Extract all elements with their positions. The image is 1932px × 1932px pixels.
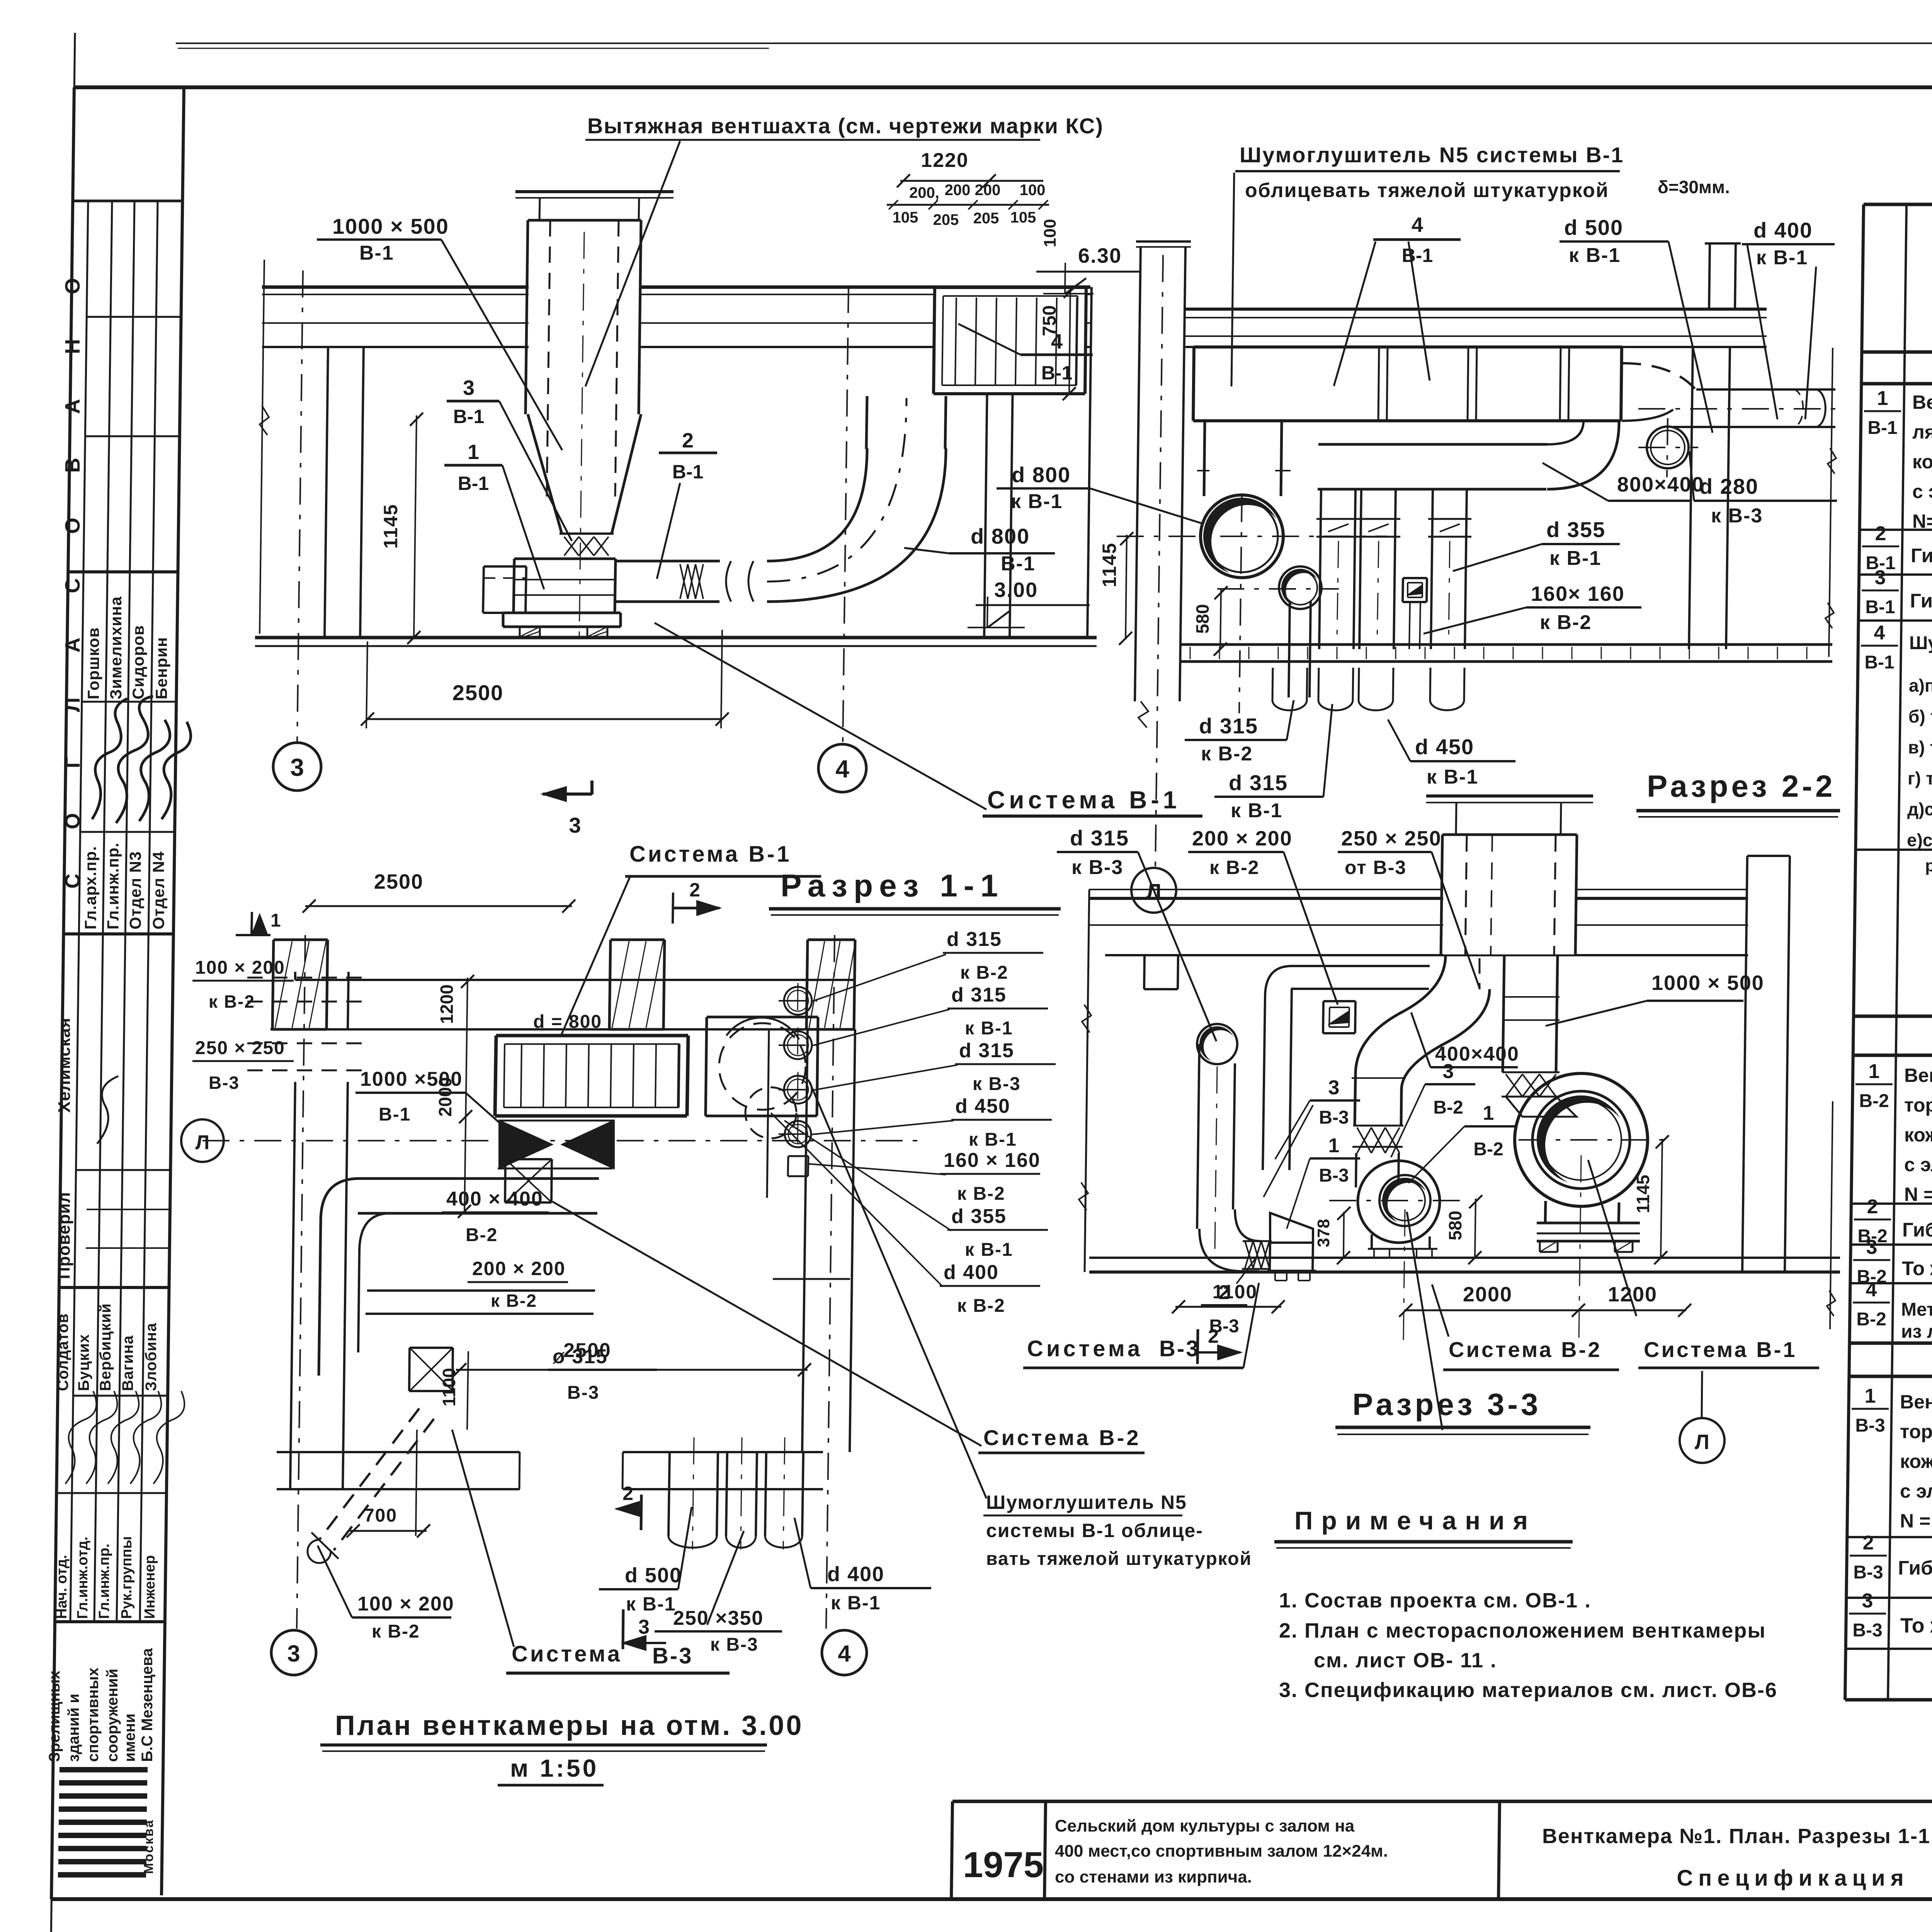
svg-text:к В-1: к В-1 [1549,547,1601,570]
r22 ceiling [1185,308,1767,311]
r22 left shaft wall [1135,247,1141,701]
svg-text:к В-2: к В-2 [1201,743,1253,765]
svg-text:План венткамеры на отм. 3.: План венткамеры на отм. 3.00 [335,1710,803,1741]
r11 right wall column [984,347,988,638]
svg-text:4: 4 [838,1641,851,1667]
svg-text:к В-2: к В-2 [957,1184,1005,1204]
svg-text:3: 3 [1443,1060,1454,1083]
svg-text:250 ×350: 250 ×350 [673,1607,764,1629]
svg-text:Гибкая вставка: Гибкая вставка [1910,590,1932,612]
svg-text:3: 3 [287,1641,300,1667]
svg-text:d 355: d 355 [1546,517,1605,542]
svg-text:205: 205 [973,210,999,227]
plan dim 1200 2000 left [464,978,468,1213]
r33 dim 1145 [1661,1139,1662,1258]
plan dim 1100 [467,1351,468,1430]
svg-text:Горшков: Горшков [84,627,102,699]
proveril sub rows [87,1209,170,1210]
svg-text:к В-2: к В-2 [372,1621,420,1642]
plan marker 3 bottom + sistema V-3 [623,1609,623,1649]
svg-text:Система: Система [512,1641,622,1667]
svg-text:Система В-2: Система В-2 [1449,1337,1602,1362]
r11 axis 4 [843,286,849,744]
svg-text:2000: 2000 [435,1077,455,1117]
svg-text:2: 2 [689,879,700,901]
svg-text:Гл.инж.отд.: Гл.инж.отд. [75,1537,91,1619]
svg-text:к В-1: к В-1 [626,1593,676,1615]
svg-text:В-2: В-2 [1859,1091,1889,1111]
plan diagonal duct bottom left [319,1408,419,1540]
r33 floor [1089,1257,1840,1259]
r22 small circle d315 [1281,569,1319,607]
svg-text:4: 4 [1874,622,1885,644]
svg-text:580: 580 [1445,1211,1465,1240]
plan axis 4 [826,935,835,1629]
svg-text:В-3: В-3 [1852,1620,1882,1641]
plan court divider [767,1029,769,1198]
plan top wall [295,979,855,981]
svg-text:Шумоглушитель N5 системы В-1: Шумоглушитель N5 системы В-1 [1240,143,1624,167]
svg-text:а)пластина шумоглушащая: а)пластина шумоглушащая [1909,675,1932,696]
svg-text:Проверил: Проверил [55,1192,74,1279]
r33 fan V-1 base [1537,1222,1640,1225]
r33 fan V-2 scroll [1358,1161,1440,1243]
stamp signatures group 1 [92,699,127,819]
svg-text:205: 205 [933,211,959,228]
svg-text:3: 3 [463,376,474,400]
svg-text:2: 2 [622,1483,633,1504]
svg-text:к В-1: к В-1 [1569,244,1621,267]
svg-text:к В-2: к В-2 [491,1291,537,1311]
svg-text:1975: 1975 [963,1844,1044,1885]
svg-text:к В-1: к В-1 [1427,766,1478,788]
svg-text:Сидоров: Сидоров [129,625,147,699]
svg-text:6.30: 6.30 [1078,244,1122,267]
plan duct 400x400 [359,1177,599,1180]
svg-text:тором исп. 1, положение: тором исп. 1, положение [1900,1421,1932,1442]
plan axis 3 [297,935,305,1629]
svg-text:200 × 200: 200 × 200 [1192,827,1293,850]
svg-text:1000 × 500: 1000 × 500 [1651,971,1764,995]
r11 left wall column [325,347,328,638]
svg-text:В-1: В-1 [1867,418,1897,438]
svg-text:Система В-2: Система В-2 [983,1425,1141,1450]
svg-text:кожуха„ПО",правого вращения: кожуха„ПО",правого вращения [1900,1451,1932,1472]
plan bottom duct stubs [668,1452,670,1536]
svg-text:1: 1 [1865,1385,1876,1407]
svg-text:из лист. стали δ = 2 мм.: из лист. стали δ = 2 мм. [1901,1321,1932,1342]
plan bottom wall [277,1451,520,1453]
r22 right wall above ceiling [1709,243,1710,309]
svg-text:В-1: В-1 [1402,245,1433,266]
svg-text:d 400: d 400 [1753,218,1813,242]
svg-text:4: 4 [1866,1279,1877,1301]
plan duct 200x200 [367,1289,595,1292]
svg-text:В-2: В-2 [1856,1309,1886,1330]
r11 right wall edge [1087,287,1092,638]
svg-text:250 × 250: 250 × 250 [1341,827,1442,850]
svg-text:3. Спецификацию материалов с: 3. Спецификацию материалов см. лист. ОВ-… [1279,1679,1777,1702]
stamp column internal verticals [70,201,88,1622]
svg-text:1: 1 [1877,387,1888,410]
r11 flex insert top [560,532,614,535]
r11 duct to elbow [616,560,720,563]
plan silencer box [496,1034,688,1037]
svg-text:к В-2: к В-2 [957,1296,1005,1316]
svg-text:Вагина: Вагина [119,1335,136,1391]
r11 left axis line [260,260,264,634]
svg-text:см. лист ОВ- 11 .: см. лист ОВ- 11 . [1314,1649,1497,1672]
stamp column right edge [162,87,184,1895]
svg-text:d 315: d 315 [1070,826,1129,850]
r22 right dim line [1829,348,1833,657]
svg-text:4: 4 [835,755,849,783]
svg-text:вать тяжелой штукатуркой: вать тяжелой штукатуркой [986,1549,1252,1569]
svg-text:Гибкая вставка: Гибкая вставка [1898,1557,1932,1579]
r22 under-floor duct stubs [1272,668,1273,700]
title block frame [952,1800,1932,1803]
svg-text:1. Состав проекта см. ОВ-1: 1. Состав проекта см. ОВ-1 . [1279,1589,1591,1612]
svg-text:1: 1 [468,440,479,464]
r11 vent shaft [529,221,640,413]
r11 duct d800 vertical [866,396,867,449]
svg-text:200 × 200: 200 × 200 [472,1258,566,1279]
svg-text:Вентагрегат с ц/б. венти-: Вентагрегат с ц/б. венти- [1912,391,1932,413]
r33 flex V-3 [1245,1241,1253,1268]
svg-text:к В-1: к В-1 [1231,799,1282,822]
svg-text:1: 1 [1483,1102,1494,1124]
r11 floor [255,636,1097,639]
svg-text:200: 200 [975,182,1001,199]
r22 floor [1180,643,1832,646]
svg-text:Гибкая вставка: Гибкая вставка [1902,1219,1932,1241]
svg-text:Л: Л [196,1131,210,1154]
svg-text:к В-3: к В-3 [1071,856,1123,879]
svg-text:к В-1: к В-1 [965,1240,1013,1260]
svg-text:750: 750 [1039,305,1060,336]
svg-text:N = 0.27 квт. n = 1400 об/м: N = 0.27 квт. n = 1400 об/мин. [1900,1510,1932,1532]
svg-text:3.00: 3.00 [994,578,1038,602]
stamp column row lines [68,570,178,573]
svg-text:к В-3: к В-3 [1711,505,1763,527]
r33 section marker 2 bottom [1197,1329,1198,1364]
svg-text:100 × 200: 100 × 200 [195,957,285,978]
r22 800x400 duct [1318,443,1547,446]
svg-text:100: 100 [1020,182,1046,199]
svg-text:Система: Система [1027,1336,1143,1361]
r22 duct drop to d800 [1204,421,1205,496]
svg-text:Металлическая коробка: Металлическая коробка [1901,1299,1932,1320]
svg-text:к В-1: к В-1 [969,1129,1017,1150]
r22 elbow to right ducts [1622,363,1696,390]
svg-text:2. План с месторасположением: 2. План с месторасположением венткамеры [1279,1619,1766,1642]
svg-text:То ж е: То ж е [1900,1614,1932,1637]
svg-text:тором исп.1 положение: тором исп.1 положение [1904,1094,1932,1116]
svg-text:3: 3 [569,813,581,837]
svg-text:Отдел N4: Отдел N4 [150,851,168,930]
svg-text:1145: 1145 [380,504,401,549]
r33 right wall [1742,856,1747,1272]
svg-text:Вентагрегат с ц/б. вентиля-: Вентагрегат с ц/б. вентиля- [1904,1065,1932,1086]
svg-text:В-3: В-3 [1855,1415,1885,1436]
plan fan V-3 box [410,1347,453,1349]
svg-text:системы В-1 облице-: системы В-1 облице- [986,1520,1203,1541]
r33 S duct to V-2 [1355,955,1446,1074]
svg-text:2: 2 [1863,1532,1874,1554]
r11 dim 1145 left [414,415,417,638]
svg-text:Система В-1: Система В-1 [629,842,792,867]
svg-text:1100: 1100 [439,1368,459,1406]
svg-text:б) то же: б) то же [1908,706,1932,726]
r11 fan unit V-1 [514,558,616,560]
r33 standpipe d315 [1199,1026,1235,1062]
svg-text:облицевать тяжелой штукатуркой: облицевать тяжелой штукатуркой [1245,179,1609,202]
svg-text:1000 × 500: 1000 × 500 [332,214,449,238]
svg-text:к В-2: к В-2 [1540,611,1592,634]
r33 flex V-1 [1506,1074,1522,1097]
svg-text:d 315: d 315 [951,984,1007,1006]
svg-text:Шумоглушитель пластинчатый: Шумоглушитель пластинчатый [1909,633,1932,653]
svg-text:100 × 200: 100 × 200 [357,1593,454,1615]
svg-text:к В-3: к В-3 [973,1074,1021,1094]
r22 silencer duct [1194,345,1622,349]
svg-text:к В-2: к В-2 [209,992,255,1012]
plan left wall [294,972,296,980]
svg-text:105: 105 [893,209,918,226]
svg-text:d 355: d 355 [951,1205,1007,1228]
plan fan V-2 box [505,1158,552,1160]
spec table outer and header [1864,203,1932,206]
r33 right dim line [1830,1101,1833,1329]
svg-text:d 450: d 450 [955,1095,1010,1117]
svg-text:Разрез 1-1: Разрез 1-1 [781,868,1004,903]
r22 right wall [1689,347,1693,649]
svg-text:d 315: d 315 [1199,714,1258,738]
svg-text:Гл.инж.пр.: Гл.инж.пр. [96,1544,112,1619]
svg-text:3: 3 [638,1616,650,1638]
svg-text:Гибкая вставка: Гибкая вставка [1911,544,1932,566]
svg-text:δ=30мм.: δ=30мм. [1658,177,1730,197]
svg-text:Венткамера №1. План. Разрезы 1: Венткамера №1. План. Разрезы 1-1 ; 2-2 ;… [1542,1825,1932,1848]
svg-text:580: 580 [1192,604,1213,634]
svg-text:зданий и: зданий и [65,1694,82,1762]
svg-text:В-2: В-2 [466,1225,498,1245]
svg-text:Система В-1: Система В-1 [1644,1337,1797,1362]
svg-text:d 500: d 500 [1564,215,1623,240]
svg-text:200: 200 [945,182,971,199]
stamp column top box bottom [73,200,182,202]
plan left duct stubs [247,977,363,979]
svg-text:с электродвигателем: с электродвигателем [1912,481,1932,502]
svg-text:к В-2: к В-2 [960,963,1009,983]
r22 dim 580 [1220,589,1221,649]
svg-text:Система В-1: Система В-1 [987,786,1180,814]
svg-text:d 450: d 450 [1415,735,1474,759]
svg-text:кожуха „ПО" правого вращен.: кожуха „ПО" правого вращен. [1912,451,1932,473]
svg-text:1220: 1220 [921,149,969,172]
svg-text:В-1: В-1 [453,406,485,427]
svg-text:сооружений: сооружений [104,1669,121,1762]
r33 flex V-2 [1357,1128,1371,1153]
r11 silencer box [935,288,1085,393]
svg-text:Примечания: Примечания [1294,1506,1536,1535]
paper top edge scan line [176,43,1932,44]
r22 axis L circle [1131,868,1176,913]
r11 dim 2500 [367,718,723,720]
svg-text:кожуха „ПО" правого вращен.: кожуха „ПО" правого вращен. [1904,1124,1932,1146]
svg-text:1: 1 [1328,1134,1340,1157]
r11 elbow d800 [767,448,867,561]
svg-text:Злобина: Злобина [143,1323,160,1391]
svg-text:3: 3 [1328,1077,1340,1099]
svg-text:к В-1: к В-1 [965,1018,1013,1039]
r33 circle L [1680,1418,1725,1463]
r33 left column [1144,955,1145,989]
svg-text:В-2: В-2 [1473,1139,1503,1160]
plan risers leader lines [811,954,946,1002]
r33 dim 1100 [1175,1306,1281,1308]
svg-text:В-3: В-3 [567,1383,599,1403]
svg-text:Л: Л [1695,1430,1709,1454]
r33 left wall line [1085,889,1089,1272]
svg-text:е)сталь прокатная угловая: е)сталь прокатная угловая [1907,830,1932,850]
svg-text:В-3: В-3 [1159,1336,1200,1361]
r11 shaft axis [579,232,584,639]
svg-text:Буцких: Буцких [75,1334,92,1391]
stamp column left edge [51,87,74,1899]
r33 fan V-3 [1270,1242,1313,1244]
r11 axis 3 [297,270,303,743]
plan leader to shumogl [810,1082,986,1498]
svg-text:d 500: d 500 [625,1564,682,1587]
svg-text:Разрез 2-2: Разрез 2-2 [1647,769,1836,803]
svg-text:к В-1: к В-1 [1756,247,1808,269]
r22 160x160 duct [1403,577,1427,579]
svg-text:d 315: d 315 [959,1039,1014,1062]
svg-text:Инженер: Инженер [142,1555,158,1619]
plan marker 2 [673,907,719,910]
svg-text:Вербицкий: Вербицкий [97,1303,114,1391]
r11 funnel [528,414,562,534]
r33 dim 580 [1475,1199,1476,1258]
svg-text:250 × 250: 250 × 250 [195,1038,285,1058]
svg-text:с электродвигателем: с электродвигателем [1900,1480,1932,1502]
svg-text:В-1: В-1 [1864,652,1894,673]
svg-text:2: 2 [1867,1196,1878,1218]
plan riser circles [784,987,812,1015]
svg-text:ø 315: ø 315 [553,1345,608,1368]
svg-text:Гл.арх.пр.: Гл.арх.пр. [82,846,100,929]
svg-text:В-3: В-3 [1853,1562,1883,1583]
svg-text:Вентагрегат с ц /б вентиля -: Вентагрегат с ц /б вентиля - [1900,1391,1932,1413]
inner frame top [74,85,1932,89]
svg-text:В-3: В-3 [1319,1107,1349,1128]
svg-text:200,: 200, [909,184,939,201]
svg-text:2000: 2000 [1463,1283,1512,1306]
svg-text:Москва: Москва [141,1819,156,1874]
svg-text:1145: 1145 [1633,1175,1653,1213]
svg-text:1145: 1145 [1099,543,1120,587]
svg-text:к В-1: к В-1 [1011,490,1063,513]
svg-text:d 315: d 315 [1229,770,1288,795]
r33 ceiling [1089,889,1748,890]
svg-text:То ж е: То ж е [1902,1257,1932,1279]
svg-text:Вытяжная вентшахта (см. чертеж: Вытяжная вентшахта (см. чертежи марки КС… [587,114,1104,138]
svg-text:Солдатов: Солдатов [54,1313,71,1391]
svg-text:N = 0.6 квт. n = 930 об./мин: N = 0.6 квт. n = 930 об./мин [1904,1184,1932,1205]
r11 ceiling [262,286,1090,289]
svg-text:105: 105 [1010,209,1036,226]
svg-text:СОГЛАСОВАНО: СОГЛАСОВАНО [61,233,84,888]
svg-text:160× 160: 160× 160 [1531,582,1625,605]
svg-text:d 400: d 400 [827,1563,884,1586]
plan top columns [274,939,328,941]
svg-text:с электродвигателем: с электродвигателем [1904,1154,1932,1175]
r33 dim 378 [1344,1212,1344,1258]
svg-text:100: 100 [1041,219,1060,247]
spec table row lines [1861,382,1932,386]
svg-text:d = 800: d = 800 [533,1012,602,1032]
svg-text:В-1: В-1 [1041,362,1073,384]
svg-text:1200: 1200 [437,985,457,1024]
svg-text:700: 700 [364,1505,397,1526]
svg-text:378: 378 [1314,1219,1333,1247]
svg-text:Хелимская: Хелимская [55,1017,74,1112]
r11 dim 100 750 right [1069,287,1070,394]
r11 section mark 3 bottom [543,793,592,796]
svg-text:д)сталь прокатная тонколистова: д)сталь прокатная тонколистовая [1907,799,1932,819]
r11 round duct mouth [726,561,731,602]
svg-text:3: 3 [1862,1590,1873,1612]
svg-text:в) то же: в) то же [1908,737,1932,757]
r33 fan V-1 scroll [1515,1073,1648,1206]
svg-text:2500: 2500 [374,870,423,893]
svg-text:лятором исп.6. положение: лятором исп.6. положение [1912,421,1932,443]
plan axis L [202,1140,920,1141]
svg-text:к В-3: к В-3 [710,1634,759,1655]
svg-text:Зимелихина: Зимелихина [107,596,125,699]
svg-text:со стенами из кирпича.: со стенами из кирпича. [1055,1867,1252,1886]
svg-text:имени: имени [121,1714,138,1762]
r11 vent shaft flange [515,190,673,193]
TSNIIEP logo hatched [60,1767,148,1772]
svg-text:3: 3 [1875,566,1886,589]
svg-text:В-3: В-3 [1319,1165,1349,1186]
svg-text:400 мест,со спортивным залом 1: 400 мест,со спортивным залом 12×24м. [1055,1842,1388,1861]
stamp signatures group 2 [65,1391,96,1484]
r33 dims 2000 1200 [1404,1310,1686,1311]
plan marker 1 left [236,934,270,936]
svg-text:Разрез 3-3: Разрез 3-3 [1352,1387,1541,1422]
svg-text:400 × 400: 400 × 400 [446,1188,543,1210]
svg-text:3: 3 [290,753,304,781]
svg-text:1100: 1100 [1213,1281,1257,1303]
svg-text:от В-3: от В-3 [1345,857,1406,878]
plan funnel black [499,1121,552,1168]
r22 circle d280 [1647,427,1689,468]
svg-text:к В-2: к В-2 [1209,857,1259,878]
svg-text:равнополая: равнополая [1925,856,1932,875]
svg-text:N=3,0 квт. n=965 об/мин.: N=3,0 квт. n=965 об/мин. [1912,510,1932,532]
svg-text:Бенрин: Бенрин [152,637,170,699]
svg-text:Гл.инж.пр.: Гл.инж.пр. [104,842,122,929]
svg-text:Отдел N3: Отдел N3 [126,851,145,930]
svg-text:спортивных: спортивных [85,1668,102,1762]
plan fan V-1 box [707,1016,818,1019]
svg-text:Спецификация: Спецификация [1677,1866,1909,1891]
svg-text:В-1: В-1 [379,1104,411,1125]
svg-text:г) то же: г) то же [1908,768,1932,788]
